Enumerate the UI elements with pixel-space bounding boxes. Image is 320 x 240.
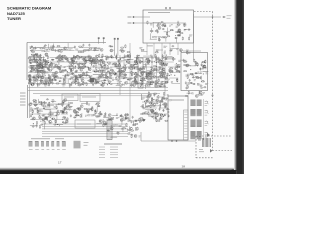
wire from terminal B across sub-board xyxy=(134,22,186,24)
value label N258 xyxy=(164,107,167,108)
connector ribbon J3a (striped cable) xyxy=(190,120,195,126)
node NJ25 xyxy=(88,80,89,81)
resistor R187 xyxy=(156,56,157,60)
value label N4 xyxy=(183,23,186,24)
resistor R182 xyxy=(154,69,158,70)
value label N287 xyxy=(61,111,64,112)
capacitor C160 xyxy=(159,85,162,87)
capacitor C157 xyxy=(150,66,153,68)
resistor R185 xyxy=(145,59,149,60)
value label N178 xyxy=(120,85,122,86)
wire antenna feed to balun xyxy=(194,16,222,18)
capacitor C120 xyxy=(64,75,66,78)
capacitor C21 xyxy=(192,76,195,78)
value label N39 xyxy=(200,85,202,86)
value label N106 xyxy=(88,56,91,57)
value label N151 xyxy=(94,71,97,72)
transistor Q31 xyxy=(95,55,98,58)
wire W96 xyxy=(118,76,124,78)
wire top ladder row y48 xyxy=(79,47,97,49)
capacitor C216 xyxy=(40,102,42,105)
value label N301 xyxy=(103,123,106,124)
value label N294 xyxy=(85,115,88,116)
resistor R100 xyxy=(83,72,84,76)
wire W68 xyxy=(89,62,96,64)
node solder joint 15 xyxy=(95,63,98,66)
value label N276 xyxy=(30,108,33,109)
parts table row 3 col 2 xyxy=(110,151,118,153)
wire decoder ladder row y97 xyxy=(142,96,152,98)
wire W91 xyxy=(135,57,137,63)
value label N175 xyxy=(143,71,145,72)
pin number label group 1 row 3 xyxy=(205,105,208,107)
node NJ43 xyxy=(176,63,177,64)
value label N127 xyxy=(100,80,103,81)
wire W123 xyxy=(145,63,147,67)
capacitor C126 xyxy=(126,54,128,57)
wire W151 xyxy=(44,124,46,129)
capacitor C191 xyxy=(165,104,167,107)
wire squiggle at ribbon J4 xyxy=(205,133,209,136)
value label N308 xyxy=(116,117,120,118)
inductor L17 xyxy=(151,81,154,84)
wire W152 xyxy=(45,106,50,108)
resistor R45 xyxy=(78,46,82,47)
value label N70 xyxy=(39,58,42,59)
resistor R111 xyxy=(75,75,76,79)
transistor Q25 xyxy=(88,68,91,71)
value label N268 xyxy=(161,102,164,103)
wire W43 xyxy=(98,75,100,79)
inductor L8 xyxy=(75,81,78,84)
legend heading text xyxy=(31,138,50,140)
wire W10 xyxy=(156,49,163,51)
wire right edge drop of sub-board xyxy=(193,14,195,60)
resistor R189 xyxy=(164,78,168,79)
capacitor C178 xyxy=(155,102,158,104)
resistor R69 xyxy=(46,62,47,66)
resistor R127 xyxy=(85,57,86,61)
capacitor C246 xyxy=(118,132,120,135)
resistor R225 xyxy=(153,93,157,94)
wire central ladder row y67 xyxy=(90,66,103,68)
capacitor C69 xyxy=(52,82,54,85)
value label N187 xyxy=(142,74,145,75)
value label N227 xyxy=(153,65,156,66)
value label N67 xyxy=(42,67,45,68)
node solder joint 27 xyxy=(135,60,138,63)
resistor R57 xyxy=(40,62,44,63)
resistor R81 xyxy=(75,77,79,78)
capacitor C148 xyxy=(148,84,151,86)
node solder joint c8 xyxy=(163,116,164,117)
resistor R221 xyxy=(161,98,162,102)
resistor R22 xyxy=(195,76,199,77)
capacitor C189 xyxy=(140,105,143,107)
resistor R294 xyxy=(125,44,126,48)
value label N62 xyxy=(32,66,35,67)
transistor Q48 xyxy=(71,63,74,66)
node NJ29 xyxy=(133,72,134,73)
resistor R110 xyxy=(92,78,96,79)
capacitor C220 xyxy=(46,98,49,100)
value label N108 xyxy=(62,85,65,86)
capacitor C154 xyxy=(149,59,151,62)
transistor Q23 xyxy=(48,81,51,84)
value label N121 xyxy=(68,65,72,66)
legend component symbol 2 xyxy=(35,141,39,146)
connector strip J10 on IC left xyxy=(184,110,189,140)
capacitor C194 xyxy=(161,97,164,99)
resistor R186 xyxy=(155,54,156,58)
node solder joint b5 xyxy=(43,107,46,110)
resistor R266 xyxy=(86,101,87,105)
value label N116 xyxy=(59,60,62,61)
wire W22 xyxy=(67,43,69,49)
capacitor C90 (electrolytic, dark can) xyxy=(90,78,94,82)
resistor R282 xyxy=(132,124,136,125)
inductor L11 xyxy=(127,58,130,61)
capacitor C132 xyxy=(114,65,117,67)
wire drop from sub-board pin 3 xyxy=(161,43,163,55)
wire decoder ladder row y114 xyxy=(142,113,159,115)
resistor R233 xyxy=(35,100,36,104)
value label N86 xyxy=(31,67,34,68)
value label N21 xyxy=(139,48,142,49)
node solder joint c9 xyxy=(154,108,157,111)
wire W17 xyxy=(195,73,202,75)
resistor R74 xyxy=(89,56,90,60)
resistor R235 xyxy=(50,114,51,118)
capacitor C11 xyxy=(171,45,174,47)
resistor R289 xyxy=(122,128,126,129)
value label N208 xyxy=(153,73,155,74)
node NJ50 xyxy=(146,113,147,114)
wire central ladder row y58 xyxy=(134,57,156,59)
transistor Q16 xyxy=(40,65,43,68)
inductor L3 xyxy=(188,65,191,68)
value label N95 xyxy=(66,61,69,62)
parts table row 2 col 2 xyxy=(110,149,118,151)
legend label 6 xyxy=(57,148,60,150)
value label N171 xyxy=(105,75,107,76)
value label N49 xyxy=(32,50,35,51)
transistor Q8 xyxy=(186,64,189,67)
capacitor C198 xyxy=(151,116,154,118)
node solder joint 19 xyxy=(133,63,136,66)
diode D6 xyxy=(91,78,94,80)
value label N229 xyxy=(163,85,166,86)
value label N119 xyxy=(69,85,72,86)
resistor R271 xyxy=(69,107,70,111)
node NJ2 xyxy=(169,36,170,37)
wire supply rail lower xyxy=(28,90,168,92)
capacitor C176 xyxy=(150,93,152,96)
node NJ46 xyxy=(166,55,167,56)
node solder joint 1 xyxy=(42,82,45,85)
wire W95 xyxy=(117,71,125,73)
wire top ladder row y50 xyxy=(78,50,100,52)
transistor Q54 xyxy=(136,73,139,76)
node solder joint 22 xyxy=(47,61,50,64)
label at terminal B xyxy=(128,22,132,24)
node NJ9 xyxy=(203,73,204,74)
node solder joint 9 xyxy=(36,61,39,64)
resistor R277 xyxy=(100,111,101,115)
node NJ36 xyxy=(161,60,162,61)
connector ribbon J1a (striped cable) xyxy=(190,100,195,105)
capacitor C192 xyxy=(159,107,161,110)
resistor R250 xyxy=(66,106,70,107)
value label N55 xyxy=(75,49,78,50)
inductor L15 xyxy=(147,85,150,88)
value label N271 xyxy=(30,110,33,111)
value label N154 xyxy=(64,57,67,58)
capacitor C210 xyxy=(30,114,32,117)
value label N236 xyxy=(177,64,179,65)
wire W73 xyxy=(95,82,101,84)
value label N41 xyxy=(206,73,209,74)
capacitor C182 xyxy=(143,119,145,122)
value label N315 xyxy=(128,132,130,133)
node NJ23 xyxy=(52,80,53,81)
wire W16 xyxy=(200,76,202,80)
value label N131 xyxy=(80,78,83,79)
resistor R218 xyxy=(155,115,156,119)
wire W6 xyxy=(164,31,171,33)
capacitor C166 xyxy=(39,83,41,86)
node solder joint 26 xyxy=(113,73,116,76)
capacitor C173 xyxy=(32,76,35,78)
wire W2 xyxy=(166,28,168,34)
transistor Q19 xyxy=(35,67,38,70)
capacitor C243 xyxy=(99,113,102,115)
transistor Q117 xyxy=(110,127,113,130)
transistor Q65 xyxy=(119,70,122,73)
value label N173 xyxy=(142,67,145,68)
wire W24 xyxy=(83,49,88,51)
transistor Q89 xyxy=(28,75,31,78)
wire W103 xyxy=(131,64,136,66)
resistor R145 xyxy=(104,65,105,69)
resistor R276 xyxy=(122,116,123,120)
value label N120 xyxy=(99,76,102,77)
diode D16 xyxy=(40,80,43,82)
node solder joint 48 xyxy=(32,67,33,68)
capacitor C201 xyxy=(64,107,67,109)
resistor R2 xyxy=(184,23,185,27)
wire W47 xyxy=(102,71,104,76)
wire W164 xyxy=(55,124,63,126)
node solder joint 47 xyxy=(42,66,43,67)
wire vertical beside ribbons xyxy=(202,99,204,140)
node solder joint 11 xyxy=(91,64,92,65)
wire W48 xyxy=(96,77,98,81)
resistor R257 xyxy=(55,119,56,123)
capacitor C239 xyxy=(104,112,106,115)
transistor Q44 xyxy=(47,67,50,70)
resistor R272 xyxy=(75,115,79,116)
parts table row 1 col 2 xyxy=(110,146,118,148)
wire corner drop to AC line xyxy=(140,132,142,141)
value label N117 xyxy=(55,66,59,67)
wire W57 xyxy=(82,55,90,57)
wire W37 xyxy=(29,56,36,58)
resistor R149 xyxy=(118,77,119,81)
wire W67 xyxy=(75,55,80,57)
value label N59 xyxy=(46,64,48,65)
net name label left column 3 xyxy=(20,98,26,100)
capacitor C236 xyxy=(99,120,101,123)
resistor R61 xyxy=(31,69,35,70)
diode D24 xyxy=(124,118,127,120)
capacitor C93 xyxy=(54,75,56,78)
value label N40 xyxy=(196,77,199,78)
value label N7 xyxy=(169,25,171,26)
transistor Q22 xyxy=(38,64,41,67)
capacitor C207 xyxy=(66,111,68,114)
value label N99 xyxy=(101,75,104,76)
resistor R162 xyxy=(110,69,114,70)
resistor R68 xyxy=(38,60,42,61)
transistor Q28 xyxy=(55,64,58,67)
node solder joint c1 xyxy=(161,113,164,116)
value label N182 xyxy=(138,71,141,72)
value label N44 xyxy=(184,61,188,62)
node NJ15 xyxy=(41,57,42,58)
node solder joint 2 xyxy=(140,80,141,81)
resistor R31 xyxy=(183,71,187,72)
resistor R201 xyxy=(165,81,169,82)
value label N263 xyxy=(150,101,153,102)
transistor Q15 xyxy=(37,71,40,74)
inductor L12 xyxy=(107,76,110,79)
wire W4 xyxy=(150,38,157,40)
capacitor C151 xyxy=(159,58,161,61)
node solder joint 6 xyxy=(94,71,95,72)
capacitor C52 xyxy=(36,60,38,63)
value label N251 xyxy=(45,85,49,86)
node NJ24 xyxy=(95,82,96,83)
wire central ladder row y78 xyxy=(70,77,88,79)
value label N244 xyxy=(45,80,48,81)
resistor R295 xyxy=(127,51,131,52)
wire W20 xyxy=(198,91,200,95)
value label N265 xyxy=(157,120,159,121)
resistor R181 xyxy=(147,81,151,82)
legend component symbol 6 xyxy=(57,141,60,146)
node solder joint 35 xyxy=(58,80,61,83)
wire W8 xyxy=(150,28,152,33)
node solder joint b9 xyxy=(57,124,58,125)
resistor R152 xyxy=(102,74,106,75)
node NJ47 xyxy=(29,81,30,82)
value label N50 xyxy=(52,46,55,47)
terminal dot on AC line 2 xyxy=(176,140,178,142)
wire W156 xyxy=(50,111,52,116)
capacitor C245 xyxy=(130,134,133,136)
resistor R286 xyxy=(130,130,134,131)
wire audio ladder row y120 xyxy=(51,119,68,121)
wire W72 xyxy=(66,65,73,67)
node NJ59 xyxy=(98,113,99,114)
wire central ladder row y78 xyxy=(94,77,114,79)
value label N302 xyxy=(125,114,128,115)
capacitor C23 xyxy=(201,63,203,66)
wire W144 xyxy=(154,113,161,115)
wire central ladder row y72 xyxy=(45,72,62,74)
wire W141 xyxy=(145,103,147,107)
value label N17 xyxy=(156,50,159,51)
resistor R94 xyxy=(96,66,97,70)
wire W166 xyxy=(51,115,57,117)
wire W100 xyxy=(127,59,133,61)
node solder joint 7 xyxy=(123,56,126,59)
value label N138 xyxy=(67,73,70,74)
wire W189 xyxy=(111,136,118,138)
capacitor C34 xyxy=(74,46,76,49)
resistor R253 xyxy=(47,105,51,106)
capacitor C212 xyxy=(63,117,66,119)
resistor R136 xyxy=(135,66,139,67)
wire W174 xyxy=(76,108,81,110)
value label N73 xyxy=(39,66,42,67)
wire W188 xyxy=(107,118,114,120)
capacitor C56 xyxy=(36,58,38,61)
wire central ladder row y84 xyxy=(155,83,167,85)
wire W70 xyxy=(85,72,87,77)
wire vertical feed 1 xyxy=(129,43,131,120)
wire W79 xyxy=(72,79,78,81)
wire decoder ladder row y97 xyxy=(156,96,164,98)
diode D14 xyxy=(154,83,157,85)
wire W85 xyxy=(69,83,71,88)
value label N161 xyxy=(124,60,127,61)
resistor R223 xyxy=(158,95,159,99)
value label N60 xyxy=(36,56,38,57)
wire W11 xyxy=(173,47,178,49)
node solder joint 29 xyxy=(126,61,127,62)
wire central ladder row y58 xyxy=(79,57,101,59)
resistor R42 xyxy=(31,51,35,52)
value label N283 xyxy=(33,101,36,102)
resistor R33 xyxy=(188,91,189,95)
node NJ7 xyxy=(198,72,199,73)
transistor Q116 xyxy=(108,114,111,117)
wire W7 xyxy=(165,37,167,42)
wire W28 xyxy=(47,44,49,49)
value label N170 xyxy=(133,64,136,65)
wire audio ladder row y120 xyxy=(30,119,45,121)
wire top ladder row y48 xyxy=(55,47,75,49)
wire W41 xyxy=(71,82,78,84)
value label N38 xyxy=(205,84,208,85)
wire central ladder row y72 xyxy=(67,72,91,74)
resistor R50 xyxy=(40,57,41,61)
value label N311 xyxy=(128,119,130,120)
connector ribbon J2a (striped cable) xyxy=(190,110,195,116)
value label N300 xyxy=(105,122,108,123)
capacitor C179 xyxy=(146,105,149,107)
value label N218 xyxy=(148,75,151,76)
value label N224 xyxy=(155,81,158,82)
capacitor C165 xyxy=(165,57,167,60)
wire W163 xyxy=(56,114,58,120)
node solder joint 54 xyxy=(119,74,122,77)
resistor R274 xyxy=(80,114,81,118)
legend connector block (hatched) xyxy=(74,141,80,149)
transistor Q32 xyxy=(72,61,75,64)
